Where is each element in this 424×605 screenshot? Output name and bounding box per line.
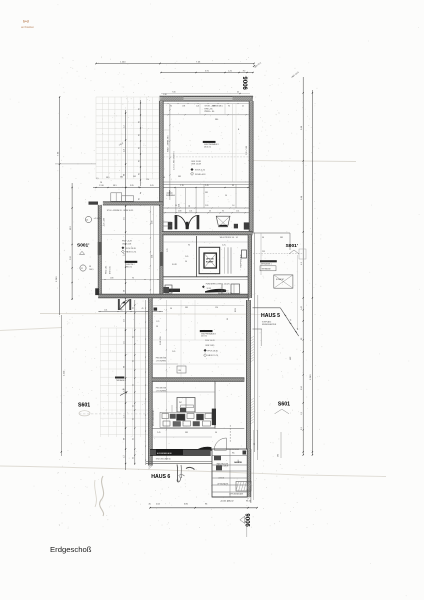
svg-text:45: 45 [237,92,239,94]
svg-text:95: 95 [133,438,135,440]
svg-text:STLK+ WSSM 20 · WSM 16.35: STLK+ WSSM 20 · WSM 16.35 [107,210,133,212]
svg-text:2.26: 2.26 [238,460,240,463]
svg-text:1.01: 1.01 [179,204,181,207]
svg-text:2.88: 2.88 [152,221,154,224]
svg-text:KG/BHF: KG/BHF [206,261,214,263]
svg-text:1.4: 1.4 [123,253,125,256]
svg-text:85: 85 [138,121,140,123]
svg-text:3.65: 3.65 [150,185,154,187]
svg-text:255: 255 [262,251,265,253]
svg-text:PW GROSS: PW GROSS [156,388,167,390]
svg-text:WINDFANG: WINDFANG [166,194,176,197]
svg-text:BRH 0.95: BRH 0.95 [110,266,112,274]
svg-text:1.510: 1.510 [99,185,104,187]
svg-text:98: 98 [89,266,91,268]
svg-text:2.45: 2.45 [205,185,209,187]
svg-text:STLK LINOLEUM 20: STLK LINOLEUM 20 [153,410,155,426]
svg-text:1.01: 1.01 [104,309,107,311]
svg-text:98.5: 98.5 [106,177,110,179]
svg-text:385: 385 [120,177,123,179]
svg-text:TERRASSE: TERRASSE [262,268,272,271]
svg-text:HBOK 15.74: HBOK 15.74 [208,355,219,357]
svg-text:1.2: 1.2 [123,125,125,128]
svg-text:FERNSEHRAUM: FERNSEHRAUM [218,292,232,295]
svg-text:1.51: 1.51 [236,211,239,213]
svg-text:95: 95 [133,457,135,459]
svg-text:OKK 15.88: OKK 15.88 [191,161,202,163]
svg-text:STOK 4.26: STOK 4.26 [195,170,206,172]
svg-text:46.9 m2: 46.9 m2 [201,336,207,338]
svg-text:85: 85 [138,160,140,162]
svg-text:2.4: 2.4 [123,149,125,152]
svg-text:120: 120 [215,307,218,309]
svg-text:HAUS 5: HAUS 5 [261,313,280,319]
svg-text:1.01: 1.01 [189,211,192,213]
svg-text:380: 380 [278,454,280,457]
svg-text:41: 41 [86,220,88,222]
svg-text:85: 85 [138,173,140,175]
svg-text:2.26 +1.88: 2.26 +1.88 [103,218,105,226]
svg-text:85: 85 [138,147,140,149]
svg-text:HBF: HBF [290,357,292,360]
svg-text:2.26: 2.26 [196,106,199,108]
svg-text:2.4: 2.4 [123,389,125,392]
svg-text:12: 12 [81,268,83,270]
svg-text:85: 85 [138,198,140,200]
svg-text:1.240: 1.240 [120,61,126,63]
svg-text:S001': S001' [286,243,298,249]
svg-text:96: 96 [227,318,229,320]
svg-text:88: 88 [123,438,125,440]
svg-text:S601: S601 [278,402,290,408]
svg-text:KINDERGARTEN: KINDERGARTEN [262,323,277,326]
svg-text:96: 96 [163,177,165,179]
svg-text:9006: 9006 [246,513,252,527]
svg-text:1.2: 1.2 [123,455,125,458]
svg-text:S601: S601 [78,402,90,408]
svg-text:96: 96 [262,237,264,239]
svg-text:96: 96 [254,443,256,445]
svg-text:1.01: 1.01 [152,255,154,258]
svg-text:95: 95 [133,360,135,362]
svg-text:5.74 x 1.88/2.26 BRH 0: 5.74 x 1.88/2.26 BRH 0 [174,151,176,170]
svg-text:96: 96 [215,432,217,434]
svg-text:98: 98 [123,366,125,368]
svg-text:±0 35.36: ±0 35.36 [218,477,224,479]
svg-text:RFFB + 86: RFFB + 86 [205,111,216,113]
svg-text:TREPPENHAUS: TREPPENHAUS [240,254,243,268]
svg-text:385: 385 [185,432,188,434]
svg-text:120: 120 [146,179,149,181]
svg-text:1.76: 1.76 [180,185,184,187]
svg-text:45: 45 [242,106,244,108]
svg-text:95: 95 [133,307,135,309]
svg-text:STLK LINOLEUM 20: STLK LINOLEUM 20 [156,458,171,460]
svg-text:365: 365 [133,176,136,178]
svg-text:2.45: 2.45 [185,256,188,258]
svg-text:9006: 9006 [244,76,250,90]
svg-text:90: 90 [188,245,190,247]
svg-text:38: 38 [123,290,125,292]
svg-text:2.8: 2.8 [123,319,125,322]
svg-text:PKW +3.28: PKW +3.28 [122,241,132,243]
svg-text:98.5: 98.5 [113,185,117,187]
svg-text:46: 46 [209,211,211,213]
svg-text:2.88: 2.88 [178,211,181,213]
svg-text:OKF +3.18: OKF +3.18 [122,243,131,245]
svg-text:PW GROSS: PW GROSS [156,358,167,360]
svg-text:FFOK 28.85: FFOK 28.85 [126,248,136,250]
svg-text:1.76: 1.76 [156,321,159,323]
svg-text:HAUS 6: HAUS 6 [151,474,170,480]
svg-text:95: 95 [133,384,135,386]
svg-text:2.25: 2.25 [222,245,226,247]
svg-text:18 95: 18 95 [207,288,212,290]
svg-text:385: 385 [205,192,208,194]
svg-text:96: 96 [228,106,230,108]
svg-text:1.340: 1.340 [56,276,58,282]
svg-text:385: 385 [185,307,188,309]
svg-text:96: 96 [170,106,172,108]
svg-text:85: 85 [138,134,140,136]
svg-text:95: 95 [133,418,135,420]
svg-text:2.26: 2.26 [205,205,208,207]
svg-text:96: 96 [225,195,227,197]
svg-text:2.6: 2.6 [123,217,125,220]
svg-text:STLK + WSM 48.5: STLK + WSM 48.5 [168,134,170,152]
svg-text:FWL 1.85: FWL 1.85 [106,266,108,274]
svg-text:88: 88 [189,205,191,207]
svg-text:96: 96 [121,309,123,311]
svg-text:95: 95 [222,211,224,213]
svg-text:WLG PROFIL 90 · 14: WLG PROFIL 90 · 14 [220,237,238,239]
svg-text:S001': S001' [77,243,89,249]
svg-text:TERRASSE 1: TERRASSE 1 [261,262,272,265]
svg-text:1.88: 1.88 [110,277,113,279]
svg-text:96: 96 [185,261,187,263]
svg-text:96: 96 [170,308,172,310]
svg-text:385: 385 [178,176,181,178]
svg-text:HBOK 15.74: HBOK 15.74 [126,252,137,254]
svg-text:RFB +85: RFB +85 [205,108,214,110]
svg-text:380: 380 [215,119,218,121]
svg-text:1.3: 1.3 [123,415,125,418]
svg-text:1,5: 1,5 [96,178,99,180]
svg-text:+41 0.10: +41 0.10 [94,218,101,220]
svg-text:OKR 15.08: OKR 15.08 [191,164,202,166]
svg-text:146,5: 146,5 [89,269,94,271]
svg-text:1.38: 1.38 [163,94,167,96]
svg-text:48.35 m2: 48.35 m2 [204,147,211,149]
svg-text:FFOK 28.85: FFOK 28.85 [208,350,218,352]
svg-text:PKW 14.28: PKW 14.28 [205,340,215,342]
svg-text:1.4: 1.4 [232,205,234,207]
svg-text:architekten: architekten [21,25,35,29]
svg-text:95: 95 [232,185,234,187]
svg-text:STOK + RESIN 48.5: STOK + RESIN 48.5 [205,106,224,108]
svg-text:OKB 13.85: OKB 13.85 [205,345,214,347]
svg-text:95: 95 [133,405,135,407]
svg-text:Erdgeschoß: Erdgeschoß [50,545,92,554]
svg-text:+40,02 = 45,02: +40,02 = 45,02 [220,501,234,503]
svg-text:95: 95 [133,336,135,338]
svg-text:PDM SEHR 0.999 — 14.025: PDM SEHR 0.999 — 14.025 [206,283,230,285]
svg-text:b+d: b+d [23,20,29,24]
svg-text:1.88: 1.88 [182,106,185,108]
svg-text:28.6 m2: 28.6 m2 [126,266,132,268]
svg-text:SCHACHT: SCHACHT [276,278,284,281]
svg-text:26: 26 [100,182,102,184]
svg-text:±7 STUFEN: ±7 STUFEN [156,360,167,362]
svg-text:STLK LINOLEUM: STLK LINOLEUM [227,449,240,451]
svg-text:98: 98 [123,174,125,176]
svg-text:45: 45 [142,308,144,310]
svg-text:FLUR: FLUR [172,264,177,266]
svg-text:7.06: 7.06 [172,92,176,94]
svg-text:2.45: 2.45 [157,432,161,434]
svg-text:3.85: 3.85 [130,185,134,187]
svg-text:1.6: 1.6 [123,341,125,344]
svg-text:ROHD 44.8: ROHD 44.8 [195,174,206,176]
svg-text:98: 98 [156,326,158,328]
svg-text:85: 85 [138,108,140,110]
svg-text:1.76: 1.76 [167,249,169,253]
svg-text:385: 385 [280,237,283,239]
svg-text:1.340: 1.340 [64,370,66,376]
svg-text:96: 96 [132,277,134,279]
svg-text:1.340: 1.340 [310,374,312,380]
svg-text:2.45: 2.45 [172,351,175,353]
svg-text:AUSSENANLAGE: AUSSENANLAGE [157,452,172,455]
